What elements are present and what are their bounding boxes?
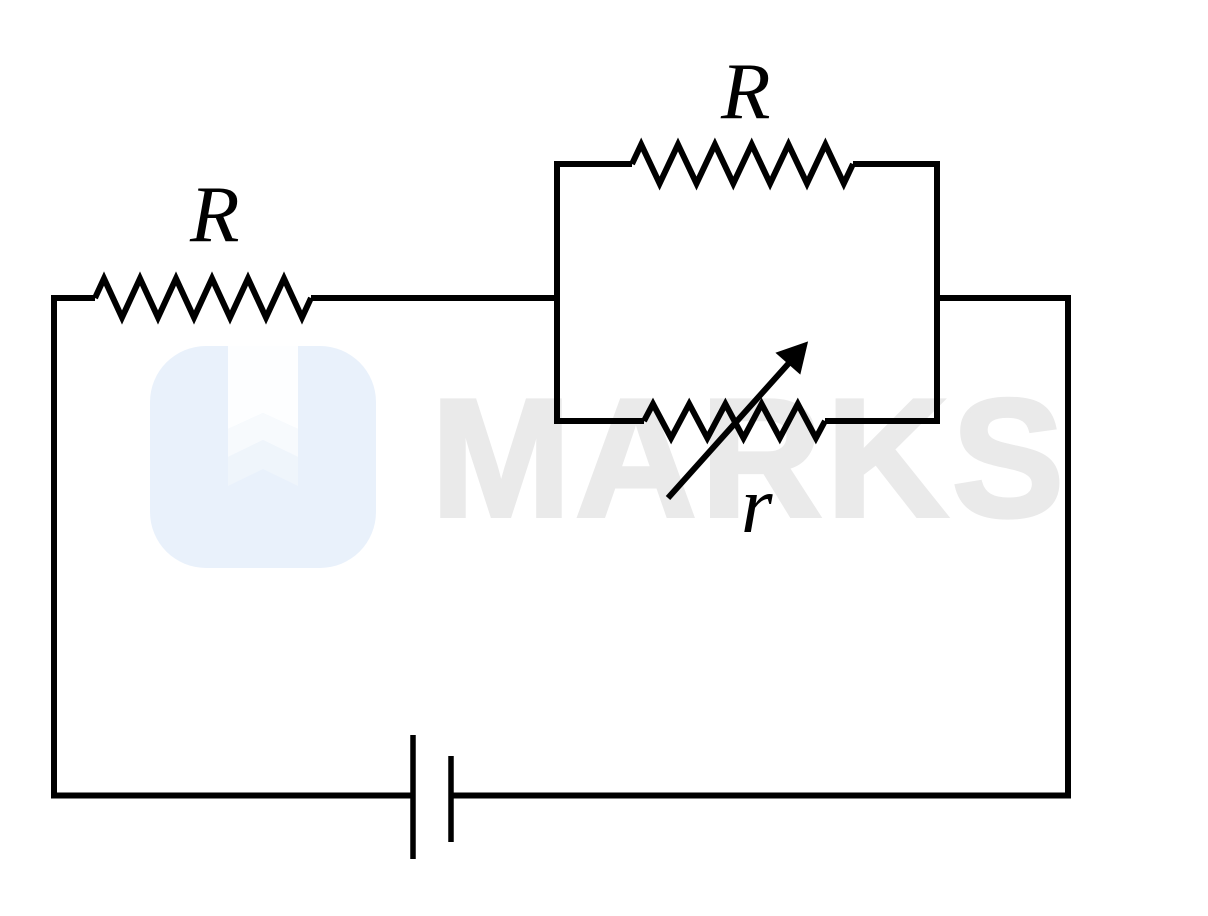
variable resistor arrow head: [775, 341, 808, 374]
watermark logo ribbon band 3: [228, 440, 298, 486]
battery short plate (negative): [448, 756, 454, 842]
wire: bottom branch left lead: [554, 418, 644, 424]
variable resistor arrow shaft: [668, 363, 789, 498]
watermark logo ribbon band 1: [228, 346, 298, 429]
wire: parallel block left side: [554, 161, 560, 424]
battery long plate (positive): [410, 735, 416, 859]
resistor R (left, series): [95, 279, 311, 318]
variable resistor r (bottom branch of parallel block): [644, 404, 825, 438]
resistor R (top branch of parallel block): [632, 145, 853, 184]
svg-text:R: R: [720, 46, 770, 136]
watermark logo rounded square: [150, 346, 376, 568]
wire: battery positive plate up left side to resistor R (left): [54, 298, 413, 796]
wire: left resistor to parallel block (node A): [311, 295, 557, 301]
wire: top branch right lead: [853, 161, 940, 167]
watermark logo ribbon band 2: [228, 413, 298, 457]
svg-text:R: R: [189, 169, 239, 259]
wire: top branch left lead: [554, 161, 632, 167]
wire: node B to right side down to battery negative plate: [451, 298, 1068, 796]
wire: parallel block right side: [934, 161, 940, 424]
svg-text:r: r: [741, 460, 773, 550]
wire: bottom branch right lead: [825, 418, 940, 424]
